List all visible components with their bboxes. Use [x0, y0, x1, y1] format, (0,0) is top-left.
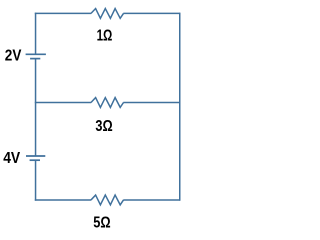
wire: right side: [179, 13, 181, 201]
svg-text:3Ω: 3Ω: [95, 118, 112, 135]
resistor R1 (zigzag): [91, 9, 124, 19]
wire: left side, top segment (top-left corner to battery V1): [35, 13, 37, 55]
wire: top side, right segment: [123, 12, 179, 14]
svg-text:1Ω: 1Ω: [97, 27, 113, 44]
battery V2: short (negative) plate: [30, 159, 40, 161]
wire: bottom side, right segment: [123, 199, 179, 201]
wire: bottom side, left segment: [35, 199, 91, 201]
wire: middle branch, right segment: [123, 102, 179, 104]
resistor R3 (zigzag): [91, 195, 124, 205]
battery V2: long (positive) plate: [26, 155, 45, 157]
resistor R2 (zigzag): [91, 98, 124, 108]
wire: left side, middle segment (battery V1 to battery V2 through middle node): [35, 59, 37, 156]
battery V1: long (positive) plate: [26, 53, 46, 55]
wire: left side, bottom segment (battery V2 to bottom-left corner): [35, 160, 37, 201]
svg-text:5Ω: 5Ω: [93, 214, 110, 231]
wire: top side, left segment: [35, 12, 91, 14]
svg-text:4V: 4V: [3, 150, 21, 167]
battery V1: short (negative) plate: [30, 58, 40, 60]
svg-text:2V: 2V: [5, 48, 22, 65]
wire: middle branch, left segment: [35, 102, 91, 104]
